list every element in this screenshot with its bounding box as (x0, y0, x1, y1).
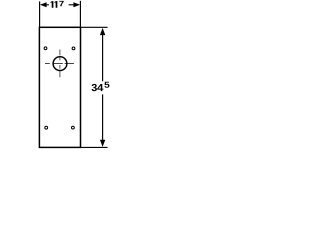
label glyph one_a (51, 1, 54, 8)
dim 345 bottom extension line (81, 146, 108, 148)
label glyph five (104, 82, 109, 88)
dim 117 left arrow (40, 2, 47, 7)
plate outline (39, 27, 80, 147)
centerline horizontal (45, 63, 74, 65)
dim 117 right arrow (73, 2, 80, 7)
centerline vertical (59, 50, 61, 78)
hole bottom-left (45, 126, 48, 129)
dim 345 up arrow (100, 28, 105, 35)
label glyph four (97, 84, 103, 91)
label glyph three (92, 84, 97, 91)
hole top-left (44, 47, 47, 50)
dim 117 left extension line (39, 1, 41, 26)
dim 117 right extension line (79, 1, 81, 28)
water supply circle (53, 57, 67, 71)
dim 345 line lower segment (102, 94, 104, 141)
dim 345 top extension line (81, 26, 108, 28)
dim 345 down arrow (100, 140, 105, 147)
label glyph one_b (55, 1, 58, 8)
hole top-right (72, 47, 75, 50)
label glyph seven (59, 1, 63, 6)
dim 117 right line stub (69, 4, 74, 6)
dim 117 left line stub (46, 4, 49, 6)
dim 345 line upper segment (102, 34, 104, 81)
hole bottom-right (72, 126, 75, 129)
